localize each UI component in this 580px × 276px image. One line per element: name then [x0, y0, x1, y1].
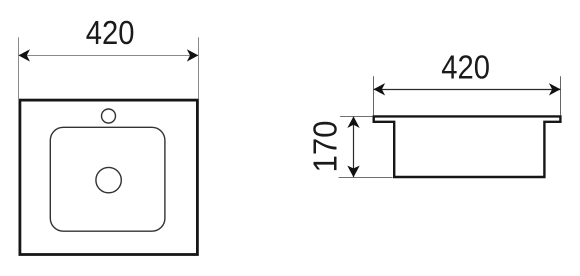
arrowhead right (side view 420): [549, 83, 561, 95]
outer rim of sink (top view): [20, 100, 198, 254]
arrowhead left (side view 420): [374, 83, 386, 95]
svg-text:170: 170: [306, 120, 343, 172]
extension line left (top view width): [18, 37, 20, 98]
extension line top (side view height): [340, 116, 372, 118]
drain hole: [96, 167, 121, 192]
extension line right (top view width): [198, 37, 200, 98]
extension line right (side view width): [560, 76, 562, 115]
svg-text:420: 420: [86, 14, 135, 51]
arrowhead bottom (side view 170): [347, 166, 359, 178]
extension line left (side view width): [373, 76, 375, 115]
arrowhead left (top view 420): [18, 49, 30, 61]
faucet hole: [102, 109, 116, 123]
sink profile outline (side section): [374, 116, 561, 177]
extension line bottom (side view height): [339, 177, 393, 179]
inner basin (rounded): [50, 127, 165, 231]
svg-text:420: 420: [441, 49, 490, 86]
arrowhead top (side view 170): [347, 116, 359, 128]
dimension line 420 (top view): [19, 55, 199, 57]
dimension line 170 (side view): [353, 117, 355, 177]
arrowhead right (top view 420): [187, 49, 199, 61]
dimension line 420 (side view): [374, 89, 561, 91]
